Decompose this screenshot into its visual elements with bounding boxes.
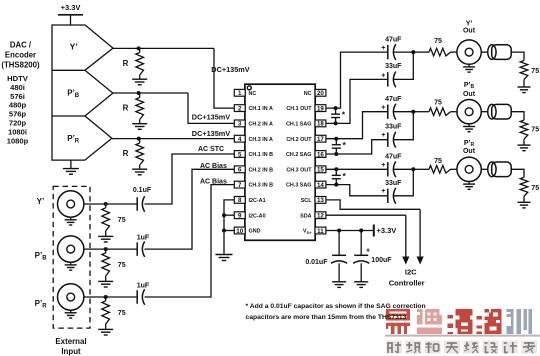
wire CH.2 OUT (pin 17) riser	[326, 112, 388, 139]
wire BNC to plug (CH.2)	[481, 111, 487, 113]
svg-text:75: 75	[434, 99, 442, 106]
capacitor 33uF (CH.2)	[381, 124, 402, 148]
wire SCL (pin 13) to I2C controller	[326, 200, 424, 265]
svg-text:+3.3V: +3.3V	[61, 3, 81, 12]
wire 75 to BNC (CH.3)	[451, 168, 457, 170]
node CH.2 SAG / 0.01uF cap	[334, 152, 338, 156]
svg-text:0.01uF: 0.01uF	[305, 259, 328, 266]
svg-text:* Add a 0.01uF capacitor as sh: * Add a 0.01uF capacitor as shown if the…	[246, 303, 426, 310]
svg-text:14: 14	[317, 182, 324, 189]
label AC STC	[198, 146, 224, 153]
resistor 75 series (CH.1)	[429, 38, 451, 56]
wire 75 to BNC (CH.1)	[451, 51, 457, 53]
wire plug to terminator (CH.1)	[511, 52, 524, 60]
pin 12 box/label	[300, 212, 326, 220]
svg-text:(THS8200): (THS8200)	[1, 60, 40, 69]
svg-text:CH.3 IN A: CH.3 IN A	[249, 137, 273, 143]
svg-text:33uF: 33uF	[385, 63, 402, 70]
op-amp U1 THS7313 body	[245, 84, 315, 240]
wire CH.2 SAG (pin 16) riser	[326, 140, 388, 154]
svg-text:CH.3 OUT: CH.3 OUT	[286, 167, 312, 173]
capacitor 0.01uF* (CH.2 SAG)	[332, 139, 347, 154]
svg-text:576p: 576p	[9, 110, 27, 119]
ground (terminator CH.2)	[518, 139, 531, 151]
pin 5 box/label	[234, 151, 273, 159]
svg-text:NC: NC	[304, 91, 312, 97]
svg-text:NC: NC	[249, 91, 257, 97]
svg-text:1080p: 1080p	[7, 136, 29, 145]
node P'R out junction	[137, 137, 141, 141]
pin 11 box/label	[303, 227, 326, 235]
svg-text:+: +	[381, 132, 385, 139]
ground (R Y')	[132, 75, 147, 85]
svg-text:R: R	[123, 103, 129, 112]
ground (R P'B)	[132, 120, 147, 130]
wire 33uF CH.3 to output node	[394, 169, 414, 196]
capacitor 33uF (CH.1)	[381, 63, 402, 87]
resistor 75 (P'B input)	[102, 249, 126, 276]
pin 1 indicator circle	[247, 86, 251, 90]
svg-text:75: 75	[118, 310, 126, 317]
svg-text:Input: Input	[61, 347, 81, 356]
note * SAG correction	[246, 303, 426, 321]
capacitor 47uF (CH.2)	[381, 96, 402, 120]
svg-text:Y’: Y’	[466, 21, 473, 28]
cable plug (CH.1)	[488, 45, 512, 60]
node CH.2 output	[411, 110, 415, 114]
svg-text:100uF: 100uF	[371, 257, 392, 264]
wire CH.3 SAG (pin 14) drop	[326, 185, 388, 196]
svg-text:Encoder: Encoder	[5, 50, 36, 59]
label P'R Out	[463, 140, 476, 155]
label External Input	[55, 337, 86, 356]
svg-text:CH.1 SAG: CH.1 SAG	[286, 122, 311, 128]
svg-text:3: 3	[238, 121, 242, 128]
svg-text:P’B: P’B	[35, 251, 48, 262]
label DC+135mV (CH.2)	[192, 113, 230, 122]
svg-text:HDTV: HDTV	[7, 74, 29, 83]
capacitor 1uF (P'R)	[137, 283, 150, 305]
BNC connector Y' input	[57, 191, 83, 225]
capacitor 47uF (CH.1)	[381, 37, 402, 61]
resistor R (P'B)	[123, 93, 144, 120]
svg-text:CH.3 SAG: CH.3 SAG	[286, 183, 311, 189]
cable plug (CH.2)	[488, 104, 512, 119]
wire 47uF CH.3 to output node	[394, 168, 414, 170]
svg-text:47uF: 47uF	[385, 96, 402, 103]
capacitor 33uF (CH.3)	[381, 180, 402, 204]
pin 13 box/label	[301, 197, 326, 205]
wire plug to terminator (CH.2)	[511, 112, 524, 120]
svg-text:P’R: P’R	[67, 134, 80, 145]
svg-text:DAC /: DAC /	[10, 41, 32, 50]
wire P'B input	[83, 248, 137, 250]
svg-text:VS+: VS+	[303, 229, 312, 235]
wire Vs+ (pin 11) to +3.3V	[326, 230, 374, 232]
svg-text:+: +	[366, 248, 370, 255]
ground (0.01uF bypass)	[332, 263, 346, 287]
svg-text:15: 15	[317, 167, 324, 174]
svg-text:Out: Out	[463, 148, 476, 155]
svg-text:12: 12	[317, 213, 324, 220]
svg-text:Y’: Y’	[70, 41, 78, 51]
power +3.3V (DAC)	[58, 3, 83, 25]
wire node to 75 (CH.3)	[413, 168, 429, 170]
BNC connector P'R Out	[457, 157, 481, 189]
wire DC+135mV net P'B to CH.2 IN A (pin 3)	[188, 93, 234, 123]
label I2C Controller	[389, 268, 425, 288]
svg-text:+: +	[381, 45, 385, 52]
ground (terminator CH.1)	[518, 80, 531, 93]
svg-text:I2C-A0: I2C-A0	[249, 213, 266, 219]
svg-text:5: 5	[238, 151, 242, 158]
wire SDA (pin 12) to I2C controller	[326, 215, 410, 264]
svg-text:8: 8	[238, 197, 242, 204]
wire BNC to plug (CH.1)	[481, 51, 487, 53]
svg-text:P’B: P’B	[464, 82, 475, 90]
svg-text:10: 10	[236, 228, 243, 235]
label HDTV formats	[7, 74, 29, 145]
svg-text:I2C-A1: I2C-A1	[249, 198, 266, 204]
ground (R P'R)	[132, 165, 147, 175]
svg-text:Controller: Controller	[389, 278, 425, 287]
node P'R input junction	[104, 295, 108, 299]
cable plug (CH.3)	[488, 162, 512, 177]
node CH.1 SAG / 0.01uF cap	[334, 121, 338, 125]
wire CH.3 OUT (pin 15)	[326, 168, 388, 170]
pin 16 box/label	[286, 151, 326, 159]
capacitor 0.01uF* (CH.1 SAG)	[331, 108, 346, 123]
ground (DAC block)	[63, 160, 79, 174]
svg-text:18: 18	[317, 121, 324, 128]
BNC connector P'R input	[57, 284, 83, 318]
node CH.3 OUT / 0.01uF cap	[334, 167, 338, 171]
svg-text:+: +	[381, 188, 385, 195]
resistor 75 series (CH.3)	[429, 158, 451, 173]
resistor R (Y')	[123, 48, 144, 75]
node P'B input junction	[104, 247, 108, 251]
node GND junction	[222, 229, 226, 233]
BNC connector P'B Out	[457, 100, 481, 132]
svg-text:2: 2	[238, 105, 242, 112]
ground (75 P'B input)	[98, 276, 113, 287]
wire DC+135mV net Y' to CH.1 IN A (pin 2)	[214, 48, 234, 108]
wire BNC to plug (CH.3)	[481, 168, 487, 170]
svg-text:*: *	[342, 110, 346, 120]
svg-text:576i: 576i	[10, 92, 25, 101]
watermark red logo	[385, 309, 540, 353]
svg-text:SCL: SCL	[301, 198, 312, 204]
svg-text:1: 1	[238, 90, 242, 97]
svg-text:19: 19	[317, 105, 324, 112]
svg-text:*: *	[343, 171, 347, 181]
label Y' Out	[463, 21, 476, 35]
pin 1 box/label	[234, 89, 256, 97]
svg-text:17: 17	[317, 136, 324, 143]
ground (75 Y' input)	[98, 231, 113, 242]
wire P'R input	[83, 296, 137, 298]
svg-text:Out: Out	[463, 28, 476, 35]
svg-text:480p: 480p	[9, 101, 27, 110]
pin 4 box/label	[234, 135, 273, 143]
op-amp buffer Y' (DAC output)	[52, 25, 113, 70]
wire Y' input	[83, 203, 137, 205]
svg-text:CH.2 IN B: CH.2 IN B	[249, 167, 274, 173]
svg-text:9: 9	[238, 213, 242, 220]
svg-text:Out: Out	[463, 91, 476, 98]
pin 17 box/label	[286, 135, 326, 143]
wire CH.1 SAG (pin 18) riser	[326, 79, 388, 123]
pin 20 box/label	[304, 89, 326, 97]
node Y' out junction	[137, 46, 141, 50]
svg-text:6: 6	[238, 167, 242, 174]
svg-text:CH.2 SAG: CH.2 SAG	[286, 152, 311, 158]
label Y' input	[37, 197, 45, 206]
svg-text:CH.2 OUT: CH.2 OUT	[286, 137, 312, 143]
svg-text:720p: 720p	[9, 119, 27, 128]
op-amp buffer P'B (DAC output)	[52, 70, 113, 116]
pin 18 box/label	[286, 120, 326, 128]
svg-text:CH.1 IN B: CH.1 IN B	[249, 152, 274, 158]
svg-text:75: 75	[531, 126, 539, 133]
svg-text:75: 75	[434, 158, 442, 165]
pin 19 box/label	[286, 105, 326, 113]
BNC connector Y' Out	[457, 40, 481, 72]
svg-text:75: 75	[531, 68, 539, 75]
dashed box External Input	[53, 186, 90, 328]
svg-text:I2C: I2C	[405, 268, 417, 277]
wire plug to terminator (CH.3)	[511, 169, 524, 177]
svg-text:DC+135mV: DC+135mV	[192, 113, 230, 122]
wire 75 to BNC (CH.2)	[451, 111, 457, 113]
svg-text:1080i: 1080i	[8, 127, 27, 136]
capacitor 100uF bypass	[353, 231, 392, 265]
node I2C-A0 junction	[222, 213, 226, 217]
wire node to 75 (CH.2)	[413, 111, 429, 113]
svg-text:SDA: SDA	[300, 213, 311, 219]
svg-text:0.1uF: 0.1uF	[133, 187, 152, 194]
svg-text:480i: 480i	[10, 83, 25, 92]
svg-text:+: +	[381, 105, 385, 112]
svg-text:R: R	[123, 59, 129, 68]
resistor 75 terminator (CH.2)	[520, 120, 539, 139]
svg-text:External: External	[55, 337, 86, 346]
label DC+135mV (CH.1)	[211, 65, 249, 74]
resistor 75 terminator (CH.3)	[520, 177, 539, 196]
svg-text:47uF: 47uF	[385, 154, 402, 161]
pin 9 box/label	[234, 212, 265, 220]
svg-text:33uF: 33uF	[385, 124, 402, 131]
svg-text:DC+135mV: DC+135mV	[192, 129, 230, 138]
label AC Bias (CH.3)	[200, 178, 227, 185]
node CH.1 OUT / 0.01uF cap	[334, 106, 338, 110]
capacitor 1uF (P'B)	[137, 235, 150, 257]
BNC connector P'B input	[57, 236, 83, 270]
node CH.1 output	[411, 50, 415, 54]
label DC+135mV (CH.3)	[192, 129, 230, 138]
wire 47uF CH.1 to output node	[394, 51, 414, 53]
pin 14 box/label	[286, 181, 326, 189]
svg-text:11: 11	[317, 228, 324, 235]
pin 2 box/label	[234, 105, 273, 113]
svg-text:+: +	[381, 162, 385, 169]
resistor 75 (P'R input)	[102, 297, 126, 324]
svg-text:33uF: 33uF	[385, 180, 402, 187]
label AC Bias (CH.2)	[200, 163, 227, 170]
svg-text:P’B: P’B	[67, 89, 80, 100]
svg-text:1uF: 1uF	[137, 283, 150, 290]
capacitor 0.01uF* (CH.3 SAG)	[332, 169, 347, 184]
svg-text:+: +	[381, 72, 385, 79]
wire P'R output to pin 4	[112, 138, 234, 140]
svg-text:AC STC: AC STC	[198, 146, 224, 153]
svg-text:20: 20	[317, 90, 324, 97]
svg-text:CH.2 IN A: CH.2 IN A	[249, 122, 273, 128]
svg-text:GND: GND	[249, 229, 261, 235]
svg-text:16: 16	[317, 151, 324, 158]
svg-text:75: 75	[118, 217, 126, 224]
pin 15 box/label	[286, 166, 326, 174]
ground (75 P'R input)	[98, 324, 113, 335]
wire 33uF CH.1 to output node	[394, 52, 414, 79]
svg-text:capacitors are more than 15mm: capacitors are more than 15mm from the T…	[246, 314, 407, 321]
wire I2C-A1/I2C-A0/GND to ground	[224, 200, 234, 255]
label P'B input	[35, 251, 48, 262]
power +3.3V (Vs)	[374, 225, 397, 237]
ground (pins 8-10)	[216, 255, 233, 261]
node CH.3 output	[411, 167, 415, 171]
ground (terminator CH.3)	[518, 196, 531, 208]
wire 47uF CH.2 to output node	[394, 111, 414, 113]
node CH.3 SAG / 0.01uF cap	[334, 183, 338, 187]
wire 1uF to CH.3 IN B (pin 7)	[145, 185, 235, 297]
resistor R (P'R)	[123, 139, 144, 165]
svg-text:*: *	[343, 140, 347, 150]
capacitor 47uF (CH.3)	[381, 154, 402, 178]
op-amp buffer P'R (DAC output)	[52, 116, 112, 160]
svg-text:P’R: P’R	[35, 299, 48, 310]
svg-text:47uF: 47uF	[385, 37, 402, 44]
wire CH.1 OUT (pin 19) riser	[326, 52, 388, 108]
wire node to 75 (CH.1)	[413, 51, 429, 53]
svg-text:CH.1 OUT: CH.1 OUT	[286, 106, 312, 112]
svg-text:13: 13	[317, 197, 324, 204]
node Y' input junction	[104, 202, 108, 206]
node 100uF bypass	[359, 229, 363, 233]
wire 33uF CH.2 to output node	[394, 112, 414, 140]
svg-text:75: 75	[531, 185, 539, 192]
svg-text:CH.1 IN A: CH.1 IN A	[249, 106, 273, 112]
resistor 75 series (CH.2)	[429, 99, 451, 115]
ground (100uF bypass)	[354, 263, 368, 287]
label P'B Out	[463, 82, 476, 98]
resistor 75 terminator (CH.1)	[520, 61, 539, 80]
pin 10 box/label	[234, 227, 260, 235]
label DAC/Encoder (THS8200)	[1, 41, 40, 70]
node 0.01uF bypass	[337, 229, 341, 233]
wire P'B output to node	[113, 92, 188, 94]
resistor 75 (Y' input)	[102, 204, 126, 231]
svg-text:CH.3 IN B: CH.3 IN B	[249, 183, 274, 189]
svg-text:7: 7	[238, 182, 242, 189]
pin 6 box/label	[234, 166, 273, 174]
svg-text:1uF: 1uF	[137, 235, 150, 242]
svg-text:75: 75	[118, 262, 126, 269]
wire 1uF to CH.2 IN B (pin 6)	[145, 169, 235, 249]
svg-text:+3.3V: +3.3V	[377, 226, 397, 235]
capacitor 0.1uF	[133, 187, 152, 212]
node CH.2 OUT / 0.01uF cap	[334, 137, 338, 141]
svg-text:75: 75	[434, 38, 442, 45]
svg-text:Y’: Y’	[37, 197, 45, 206]
node P'B out junction	[137, 91, 141, 95]
svg-text:R: R	[123, 149, 129, 158]
capacitor 0.01uF bypass	[305, 231, 347, 266]
wire 0.1uF to CH.1 IN B (pin 5)	[145, 154, 235, 204]
wire Y' output to node	[113, 47, 214, 49]
svg-text:4: 4	[238, 136, 242, 143]
pin 3 box/label	[234, 120, 273, 128]
pin 8 box/label	[234, 197, 265, 205]
svg-text:DC+135mV: DC+135mV	[211, 65, 249, 74]
pin 7 box/label	[234, 181, 273, 189]
label P'R input	[35, 299, 48, 310]
